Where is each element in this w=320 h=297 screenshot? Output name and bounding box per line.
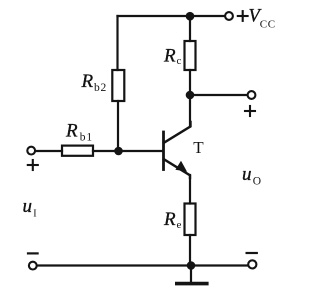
node collector junction — [186, 91, 195, 100]
label Rc — [163, 45, 182, 67]
resistor Re — [185, 204, 196, 236]
node base junction — [114, 147, 123, 156]
node top junction (Rc tap on +Vcc rail) — [186, 12, 195, 21]
label input plus sign — [28, 160, 38, 170]
terminal +Vcc — [225, 12, 233, 20]
transistor T collector lead — [164, 122, 191, 143]
svg-text:e: e — [177, 219, 182, 231]
svg-text:u: u — [23, 196, 33, 217]
terminal input - — [29, 262, 37, 270]
resistor Rc — [185, 41, 196, 70]
svg-text:T: T — [193, 138, 204, 157]
label uo output voltage — [242, 164, 261, 188]
svg-text:I: I — [33, 208, 36, 219]
svg-text:R: R — [81, 71, 94, 92]
label input minus sign — [28, 252, 38, 254]
label output minus sign — [247, 252, 257, 254]
resistor Rb2 — [112, 70, 124, 101]
svg-text:O: O — [253, 176, 261, 188]
wire emitter to Re — [189, 175, 191, 204]
svg-text:b2: b2 — [94, 82, 107, 94]
svg-text:R: R — [163, 209, 176, 230]
wire Rb2 top (corner to resistor) — [116, 16, 118, 70]
ground — [177, 266, 207, 284]
svg-text:CC: CC — [260, 19, 276, 31]
label Rb1 — [65, 120, 93, 143]
svg-text:R: R — [65, 120, 78, 141]
wire Rc top (rail to resistor) — [189, 16, 191, 41]
wire Rc bottom to collector — [189, 70, 191, 127]
label output plus sign — [245, 106, 255, 116]
wire collector node to output terminal — [190, 94, 248, 96]
wire Rb1 to transistor base — [93, 150, 163, 152]
label Rb2 — [81, 71, 108, 94]
wire input terminal to Rb1 — [35, 150, 62, 152]
wire Rb2 bottom to base node — [117, 101, 119, 151]
label Re — [163, 209, 182, 231]
wire top rail from Rb2 corner to +Vcc terminal — [118, 15, 226, 17]
terminal output - — [248, 260, 256, 268]
label +Vcc — [238, 7, 276, 31]
terminal output + — [248, 91, 256, 99]
terminal input + — [27, 147, 35, 155]
svg-text:c: c — [177, 55, 182, 67]
resistor Rb1 — [62, 146, 93, 156]
svg-text:b1: b1 — [80, 131, 93, 143]
label u1 input voltage — [23, 196, 37, 219]
transistor T base bar — [162, 132, 165, 170]
wire Re bottom to ground rail — [189, 235, 191, 266]
node ground junction — [187, 261, 196, 270]
transistor T emitter lead — [164, 159, 190, 178]
svg-text:R: R — [163, 45, 176, 66]
transistor T emitter arrow — [175, 161, 187, 172]
wire bottom rail — [37, 264, 248, 266]
svg-text:u: u — [242, 164, 252, 185]
